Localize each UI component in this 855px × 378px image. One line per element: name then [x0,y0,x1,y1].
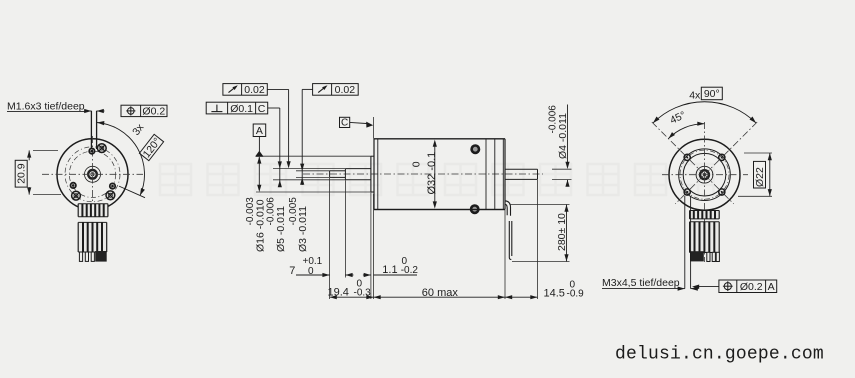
svg-text:Ø5 -0.011: Ø5 -0.011 [275,206,287,252]
svg-text:280± 10: 280± 10 [556,213,568,251]
svg-text:C: C [341,118,348,129]
svg-text:Ø4 -0.011: Ø4 -0.011 [557,113,569,159]
svg-text:Ø0.1: Ø0.1 [230,103,253,115]
svg-text:Ø3 -0.011: Ø3 -0.011 [297,206,309,252]
svg-text:60 max: 60 max [422,287,459,299]
svg-text:14.5: 14.5 [544,288,565,300]
svg-text:Ø0.2: Ø0.2 [142,106,165,118]
svg-text:M3x4,5 tief/deep: M3x4,5 tief/deep [602,277,680,289]
svg-text:Ø32 -0.1: Ø32 -0.1 [426,152,438,195]
svg-text:delusi.cn.goepe.com: delusi.cn.goepe.com [615,345,824,365]
svg-text:M1.6x3 tief/deep: M1.6x3 tief/deep [7,100,85,112]
svg-text:0: 0 [411,161,423,167]
svg-text:0: 0 [357,279,363,290]
svg-text:0.02: 0.02 [244,84,265,96]
svg-text:Ø16 -0.010: Ø16 -0.010 [254,199,266,252]
svg-text:-0.005: -0.005 [288,197,299,226]
svg-text:90°: 90° [704,88,720,100]
svg-text:A: A [256,125,263,137]
svg-text:C: C [258,103,266,115]
svg-text:0: 0 [402,256,408,267]
svg-text:0: 0 [570,280,576,291]
svg-text:-0.006: -0.006 [266,197,277,226]
svg-text:A: A [768,281,775,293]
svg-text:7: 7 [289,265,295,277]
svg-text:-0.006: -0.006 [548,105,559,134]
svg-text:1.1: 1.1 [382,264,397,276]
svg-text:Ø0.2: Ø0.2 [740,281,763,293]
svg-text:0.02: 0.02 [335,84,356,96]
svg-text:20.9: 20.9 [15,163,27,184]
svg-text:Ø22: Ø22 [754,167,766,187]
svg-text:19.4: 19.4 [328,287,349,299]
svg-text:4x: 4x [689,89,701,101]
svg-text:-0.003: -0.003 [245,197,256,226]
